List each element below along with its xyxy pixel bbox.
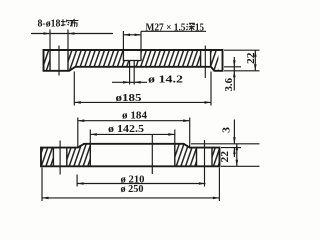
arrow o14.2 left [123,81,130,84]
arrow o142.5 right [168,133,175,136]
arrow M27 left [124,34,130,37]
bore walls o142.5 [90,144,175,167]
bolt hole left centerline [59,141,61,175]
leader shelf M27 [141,30,206,32]
pilot hole o14.2 outline [130,61,135,67]
svg-text:22: 22 [246,53,257,65]
arrow o184 right [183,119,190,122]
arrow 8-o18 right [68,32,75,35]
svg-text:8-ø18: 8-ø18 [38,18,61,29]
dimension line o185 [74,101,211,103]
svg-text:ø 14.2: ø 14.2 [148,75,183,86]
rim top extension to right [221,147,241,149]
bolt hole left [53,148,66,167]
o142.5 extension lines [90,130,175,144]
arrow o142.5 left [90,133,97,136]
arrow 22 lower down [236,160,239,167]
dimension line 8-o18 [31,33,113,35]
bolt hole right [201,50,211,67]
svg-text:3: 3 [222,127,233,133]
arrow M27 right [135,34,141,37]
arrow 3.6 up [233,71,236,78]
glyph jun (均) [61,19,72,26]
arrow 3 up [233,148,236,155]
dimension line o142.5 [90,133,175,135]
bolt hole right centerline / o210 right extension [204,140,206,187]
tapped hole M27 outline [123,50,141,61]
arrow 8-o18 left [44,32,51,35]
svg-text:15: 15 [195,22,204,33]
flange body hatching (section) [44,50,219,71]
svg-text:22: 22 [220,151,231,163]
raised face top extension to right [191,143,260,145]
arrow o185 left [74,101,81,104]
step 3.6 extension line [224,66,241,68]
svg-text:ø 250: ø 250 [121,184,144,195]
arrow o184 left [78,119,85,122]
arrow 3.6 down [233,60,236,67]
flange body outline [41,144,220,167]
stray vertical line [151,134,153,174]
glyph bu (布) [70,19,78,27]
o210 left extension line [76,175,78,187]
thickness 22 lower: bottom extension [221,165,260,167]
arrow o185 right [205,101,212,104]
arrow 3 down [233,137,236,144]
svg-text:3.6: 3.6 [224,78,235,92]
bolt hole left (o18) [50,50,68,71]
dimension line o184 [78,120,190,122]
flange body outline [44,50,223,71]
dimension line o210 [77,183,205,185]
dimension 8-o18 extension lines [50,30,68,51]
arrow 22 lower up [236,144,239,151]
arrow o250 right [213,197,220,200]
svg-text:ø 184: ø 184 [122,110,147,121]
dimension line M27 [123,34,141,36]
arrow o250 left [42,197,49,200]
bolt hole right [197,148,213,167]
arrow o210 right [199,182,206,185]
dimension line o14.2 [112,81,147,83]
svg-text:ø185: ø185 [116,93,142,104]
dimension line 3 [233,120,235,158]
svg-text:ø 142.5: ø 142.5 [108,124,144,135]
o14.2 extension lines [130,67,135,85]
arrow 22 down [254,64,257,71]
dimension line 3.6 [233,57,235,91]
flange body hatching [41,144,220,167]
glyph shen (深) [186,23,195,31]
o185 extension lines [74,72,211,106]
o184 extension lines [78,118,190,148]
svg-text:M27 × 1.5: M27 × 1.5 [146,22,186,33]
dimension line o250 [42,197,219,199]
dimension M27 extension lines [123,31,141,50]
o250 extension lines [42,168,219,202]
bolt hole right centerline [204,46,206,79]
bolt hole left centerline [58,46,60,76]
arrow o14.2 right [134,81,141,84]
arrow 22 up [254,50,257,57]
arrow o210 left [77,182,84,185]
dimension line 22 [254,50,256,71]
thickness 22 extension lines [224,50,260,71]
dimension line 22 lower [236,144,238,167]
raised face top edge across bore [84,143,184,145]
